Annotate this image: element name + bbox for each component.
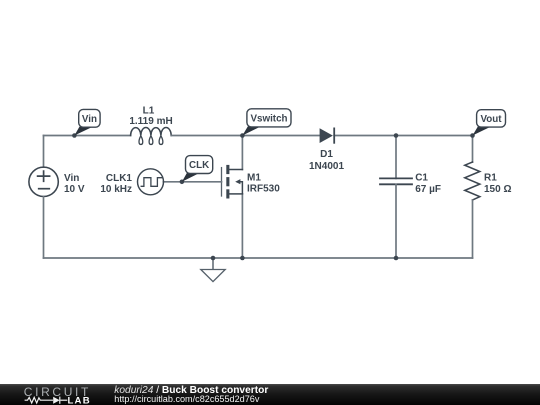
svg-text:150 Ω: 150 Ω bbox=[484, 184, 511, 195]
svg-text:M1: M1 bbox=[247, 173, 261, 184]
wire right vertical top bbox=[472, 136, 474, 163]
node M1 source bottom dot bbox=[240, 256, 245, 261]
wire bottom horizontal bbox=[44, 257, 473, 259]
wire clock to gate bbox=[163, 181, 221, 183]
mosfet body arrow line bbox=[240, 182, 243, 194]
diode D1 triangle bbox=[320, 128, 333, 143]
node ground dot bbox=[211, 256, 216, 261]
svg-text:L1: L1 bbox=[143, 105, 155, 116]
clock source CLK1 circle bbox=[138, 169, 164, 195]
node Vswitch dot bbox=[240, 133, 245, 138]
ground symbol triangle bbox=[201, 270, 225, 282]
node Vout dot bbox=[470, 133, 475, 138]
node Vin dot bbox=[72, 133, 77, 138]
node dots bbox=[72, 133, 475, 260]
mosfet M1 drain channel bar bbox=[226, 165, 229, 174]
resistor R1 zigzag bbox=[465, 162, 480, 200]
wire inductor to diode bbox=[171, 135, 319, 137]
svg-text:Vin: Vin bbox=[64, 173, 79, 184]
wire left vertical bottom bbox=[43, 197, 45, 259]
inductor L1 bbox=[131, 128, 172, 145]
mosfet M1 drain lead bbox=[229, 169, 242, 171]
svg-text:Vswitch: Vswitch bbox=[250, 114, 287, 125]
wire top-left horizontal bbox=[44, 135, 131, 137]
svg-text:http://circuitlab.com/c82c655d: http://circuitlab.com/c82c655d2d76v bbox=[114, 394, 260, 404]
mosfet M1 gate line bbox=[221, 168, 223, 196]
capacitor C1 plates bbox=[380, 178, 412, 184]
svg-text:LAB: LAB bbox=[68, 396, 91, 405]
wire Vswitch node down to mosfet drain bbox=[241, 136, 243, 170]
svg-text:10 kHz: 10 kHz bbox=[100, 184, 132, 195]
clock square wave glyph bbox=[141, 178, 162, 187]
minus sign bbox=[39, 188, 50, 190]
node C1 top dot bbox=[394, 133, 399, 138]
svg-text:CLK: CLK bbox=[189, 160, 209, 171]
mosfet M1 body channel bar bbox=[226, 177, 229, 186]
wire mosfet source to bottom bbox=[241, 194, 243, 258]
mosfet M1 source channel bar bbox=[226, 189, 229, 198]
wire capacitor bottom bbox=[395, 184, 397, 258]
ground stub bbox=[212, 258, 214, 270]
mosfet arrow head bbox=[235, 179, 240, 184]
svg-text:Vin: Vin bbox=[82, 114, 97, 125]
wire left vertical top bbox=[43, 136, 45, 168]
mosfet source lead bbox=[229, 193, 242, 195]
svg-text:C1: C1 bbox=[415, 173, 428, 184]
flag CLK bbox=[182, 156, 213, 182]
flag Vin bbox=[74, 109, 100, 135]
wire diode to Vout node bbox=[334, 135, 472, 137]
flag Vswitch bbox=[242, 109, 291, 136]
node CLK dot bbox=[180, 180, 185, 185]
svg-text:CLK1: CLK1 bbox=[106, 173, 133, 184]
wire capacitor top bbox=[395, 136, 397, 179]
logo diode triangle bbox=[53, 397, 60, 404]
svg-text:10 V: 10 V bbox=[64, 184, 85, 195]
svg-text:D1: D1 bbox=[320, 149, 333, 160]
flag Vout bbox=[473, 110, 506, 136]
wire right vertical bottom bbox=[472, 200, 474, 258]
mosfet channel bars bbox=[226, 128, 333, 198]
svg-text:Vout: Vout bbox=[480, 114, 502, 125]
plus sign bbox=[38, 171, 50, 181]
svg-text:1N4001: 1N4001 bbox=[309, 161, 344, 172]
voltage source Vin circle bbox=[29, 167, 58, 196]
svg-text:R1: R1 bbox=[484, 173, 497, 184]
svg-text:1.119 mH: 1.119 mH bbox=[129, 116, 172, 127]
logo zigzag wire and diode bbox=[25, 397, 68, 404]
diode D1 cathode bar bbox=[333, 128, 335, 144]
svg-text:67 µF: 67 µF bbox=[415, 184, 441, 195]
node C1 bottom dot bbox=[394, 256, 399, 261]
svg-text:IRF530: IRF530 bbox=[247, 184, 280, 195]
